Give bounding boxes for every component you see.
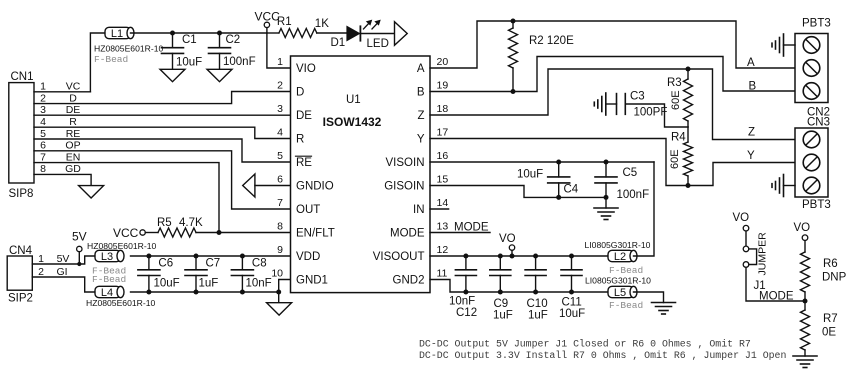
svg-text:F-Bead: F-Bead: [609, 300, 643, 311]
svg-text:SIP2: SIP2: [8, 293, 33, 305]
svg-text:0E: 0E: [822, 327, 836, 339]
C1 value 10uF: [176, 57, 202, 69]
5V terminal: [72, 230, 87, 265]
capacitor C10: [525, 256, 546, 292]
R7 label: [823, 313, 838, 325]
VO terminal at R6: [794, 222, 811, 252]
resistor R7 0E: [801, 301, 810, 356]
wire GND2 rail pin11: [430, 280, 608, 293]
junction C6 bottom: [146, 290, 151, 295]
CN1 label: [11, 71, 34, 83]
svg-text:PBT3: PBT3: [802, 199, 831, 211]
junction GND1/pin10: [276, 290, 281, 295]
C9 label: [494, 298, 509, 310]
U1 pin name EN/FLT (pin 8): [296, 228, 335, 240]
VO terminal at J1: [733, 212, 750, 246]
wire OP to U1 pin 7: [34, 151, 291, 209]
CN1 net label RE: [66, 128, 81, 140]
svg-text:LED: LED: [367, 38, 389, 50]
svg-text:VISOIN: VISOIN: [386, 157, 425, 169]
wire GND1 rail: [131, 291, 279, 293]
svg-text:MODE: MODE: [759, 291, 794, 303]
op-amp U1 ISOW1432 body: [291, 56, 431, 293]
svg-text:60E: 60E: [669, 149, 681, 169]
ground under C2: [207, 69, 232, 81]
svg-text:C9: C9: [494, 298, 509, 310]
VCC label top: [255, 10, 281, 24]
U1 pin name A (pin 20): [417, 63, 425, 75]
connector CN4 body: [7, 256, 32, 290]
svg-text:SIP8: SIP8: [9, 188, 34, 200]
C2 value 100nF: [223, 56, 256, 68]
svg-text:LI0805G301R-10: LI0805G301R-10: [585, 240, 651, 250]
U1 pin 17 number: [437, 126, 449, 138]
U1 pin 10 number: [271, 267, 283, 279]
wire B net pin19 to CN2: [430, 57, 795, 92]
CN4 pin 1 number: [38, 253, 44, 265]
svg-text:HZ0805E601R-10: HZ0805E601R-10: [86, 298, 155, 308]
resistor R2 120E: [509, 21, 518, 92]
LED D1: [347, 26, 395, 40]
svg-text:GND2: GND2: [393, 275, 425, 287]
U1 pin name GND1 (pin 10): [296, 275, 328, 287]
svg-text:6: 6: [40, 140, 46, 152]
svg-text:VCC: VCC: [113, 226, 139, 240]
junction C10 top: [533, 254, 538, 259]
svg-text:C1: C1: [182, 34, 197, 46]
CN1 net label VC: [66, 81, 81, 93]
svg-text:R3: R3: [667, 77, 682, 89]
capacitor C6: [138, 256, 160, 292]
C3 label: [630, 91, 645, 103]
U1 pin name DE (pin 3): [296, 110, 312, 122]
wire R to U1 pin 4: [34, 127, 291, 138]
svg-text:EN/FLT: EN/FLT: [296, 228, 335, 240]
junction C8 bottom: [240, 290, 245, 295]
C3 value 100PF: [634, 107, 668, 119]
svg-text:VISOOUT: VISOOUT: [373, 251, 425, 263]
U1 pin 2 number: [277, 79, 283, 91]
svg-text:7: 7: [40, 151, 46, 163]
svg-text:3: 3: [40, 104, 46, 116]
svg-text:10nF: 10nF: [246, 277, 272, 289]
svg-text:A: A: [417, 63, 425, 75]
VCC terminal at R5: [113, 226, 145, 240]
junction C4 bottom: [556, 195, 561, 200]
U1 pin 4 number: [277, 126, 283, 138]
CN1 net label OP: [65, 140, 80, 152]
capacitor C9: [490, 256, 511, 292]
svg-text:GND1: GND1: [296, 275, 328, 287]
CN1 net label DE: [66, 104, 81, 116]
svg-text:C2: C2: [226, 34, 241, 46]
D1 label: [331, 37, 346, 49]
U1 pin name R (pin 4): [296, 134, 304, 146]
wire GISOIN pin15: [430, 186, 606, 198]
svg-text:B: B: [749, 81, 757, 93]
junction C1/rail: [170, 31, 175, 36]
L4 F-Bead label: [92, 274, 126, 285]
net label MODE at J1: [759, 291, 794, 303]
svg-text:DNP: DNP: [822, 272, 847, 284]
svg-text:OUT: OUT: [296, 204, 320, 216]
wire Z net pin18 to CN3: [430, 69, 795, 140]
CN4 label: [9, 245, 33, 257]
svg-text:5V: 5V: [57, 253, 70, 265]
svg-text:10uF: 10uF: [559, 308, 585, 320]
U1 pin 9 number: [277, 244, 283, 256]
svg-text:1: 1: [40, 81, 46, 93]
wire L1 to VCC node: [131, 32, 267, 34]
svg-text:100PF: 100PF: [634, 107, 668, 119]
C12 value 10nF: [449, 295, 475, 307]
net label MODE pin13: [454, 222, 489, 234]
svg-text:1uF: 1uF: [528, 309, 548, 321]
U1 pin 1 number: [277, 56, 283, 68]
svg-text:10uF: 10uF: [154, 277, 180, 289]
wire VC row: [34, 91, 90, 93]
U1 pin name OUT (pin 7): [296, 204, 320, 216]
junction C8 top: [240, 254, 245, 259]
U1 pin name GND2 (pin 11): [393, 275, 425, 287]
capacitor C3 100PF: [594, 93, 688, 127]
svg-text:RE: RE: [66, 128, 81, 140]
R6 label: [823, 258, 838, 270]
wire GI to L4: [32, 277, 95, 292]
U1 pin 14 number: [437, 197, 449, 209]
svg-text:C12: C12: [456, 307, 477, 319]
VCC terminal circle: [264, 22, 269, 33]
wire VDD rail: [131, 255, 291, 257]
svg-text:1: 1: [277, 56, 283, 68]
svg-text:D: D: [69, 92, 77, 104]
C6 label: [158, 257, 173, 269]
U1 pin 15 number: [437, 173, 449, 185]
junction C6 top: [146, 254, 151, 259]
svg-text:CN3: CN3: [807, 117, 830, 129]
L3 F-Bead label: [92, 265, 126, 276]
svg-text:7: 7: [277, 197, 283, 209]
junction C5 bottom: [604, 195, 609, 200]
capacitor C5: [595, 162, 617, 197]
svg-text:GNDIO: GNDIO: [296, 181, 334, 193]
svg-text:18: 18: [437, 103, 449, 115]
svg-text:2: 2: [38, 266, 44, 278]
svg-text:D: D: [296, 87, 304, 99]
U1 pin 19 number: [437, 79, 449, 91]
wire VCC rail from CN1 pin1 to L1: [90, 33, 105, 92]
resistor R6 DNP: [801, 252, 810, 301]
C7 label: [206, 257, 221, 269]
C4 label: [564, 184, 579, 196]
svg-text:2: 2: [277, 79, 283, 91]
wire L2 out to VISOIN: [634, 162, 655, 256]
junction R2 top: [511, 19, 516, 24]
svg-text:VO: VO: [794, 222, 811, 234]
ground under C1: [160, 69, 185, 81]
junction MODE/R6/R7: [803, 299, 808, 304]
svg-text:GI: GI: [56, 266, 67, 278]
CN1 pin 8 number: [40, 163, 46, 175]
resistor R4 60E: [684, 127, 693, 186]
U1 reference label: [346, 94, 361, 106]
CN1 pin 3 number: [40, 104, 46, 116]
svg-text:PBT3: PBT3: [802, 18, 831, 30]
wire VISOIN pin16: [430, 161, 654, 163]
CN4 pin 2 number: [38, 266, 44, 278]
ground after L5: [652, 303, 676, 315]
resistor R3 60E: [684, 69, 693, 127]
R7 value 0E: [822, 327, 836, 339]
SIP8 label: [9, 188, 34, 200]
CN1 net label R: [69, 116, 77, 128]
VO terminal at rail: [499, 233, 516, 256]
CN1 pin 7 number: [40, 151, 46, 163]
junction 5V stem: [77, 262, 81, 266]
svg-text:HZ0805E601R-10: HZ0805E601R-10: [87, 241, 156, 251]
svg-text:20: 20: [437, 56, 449, 68]
ferrite bead L4: [95, 286, 124, 299]
U1 pin 11 number: [437, 267, 448, 279]
U1 pin 5 number: [277, 150, 283, 162]
jumper J1: [743, 246, 756, 267]
svg-text:11: 11: [437, 267, 448, 279]
svg-text:15: 15: [437, 173, 449, 185]
junction C11 top: [569, 254, 574, 259]
wire A net pin20 to CN2: [430, 21, 795, 68]
junction C4 top: [556, 160, 561, 165]
svg-text:5: 5: [277, 150, 283, 162]
svg-text:ISOW1432: ISOW1432: [323, 115, 382, 129]
J1 label: [754, 280, 766, 292]
U1 pin 20 number: [437, 56, 449, 68]
junction C9 top: [498, 254, 503, 259]
svg-text:B: B: [417, 87, 425, 99]
junction C7 bottom: [194, 290, 199, 295]
wire RE to U1 pin 5: [34, 139, 291, 162]
L2 part number: [585, 240, 651, 250]
junction C2/rail: [217, 31, 222, 36]
svg-text:13: 13: [437, 220, 449, 232]
L3 part number: [87, 241, 156, 251]
U1 pin name VISOOUT (pin 12): [373, 251, 425, 263]
svg-text:60E: 60E: [670, 90, 682, 110]
C9 value 1uF: [493, 309, 513, 321]
svg-text:DC-DC Output 3.3V Install R7 0: DC-DC Output 3.3V Install R7 0 Ohms , Om…: [419, 350, 786, 361]
L1 F-Bead label: [94, 54, 128, 65]
resistor R5 4.7K: [145, 228, 290, 237]
L5 F-Bead label: [609, 300, 643, 311]
CN4 net label GI: [56, 266, 67, 278]
R5 label: [157, 217, 172, 229]
svg-text:CN4: CN4: [9, 245, 33, 257]
svg-text:DE: DE: [66, 104, 81, 116]
C7 value 1uF: [199, 277, 219, 289]
junction VO stem: [510, 254, 515, 259]
svg-text:F-Bead: F-Bead: [92, 274, 126, 285]
ground GD triangle: [79, 186, 104, 198]
R2 label: [529, 35, 574, 47]
C1 label: [182, 34, 197, 46]
CN1 net label EN: [66, 151, 81, 163]
svg-text:CN1: CN1: [11, 71, 34, 83]
wire D to U1 pin 2: [34, 92, 291, 104]
capacitor C12: [455, 256, 476, 292]
svg-text:Z: Z: [417, 110, 424, 122]
C6 value 10uF: [154, 277, 180, 289]
svg-text:R6: R6: [823, 258, 838, 270]
C4 value 10uF: [517, 169, 543, 181]
capacitor C4: [548, 162, 570, 197]
ground at CN2 pin1: [772, 34, 795, 56]
U1 pin 18 number: [437, 103, 449, 115]
U1 pin name VDD (pin 9): [296, 251, 320, 263]
svg-text:C4: C4: [564, 184, 579, 196]
svg-text:C8: C8: [252, 257, 267, 269]
U1 pin name IN (pin 14): [413, 204, 425, 216]
L4 part number: [86, 298, 155, 308]
CN1 pin 2 number: [40, 92, 46, 104]
junction C12 top: [463, 254, 468, 259]
label Y: [747, 150, 755, 162]
svg-text:C6: C6: [158, 257, 173, 269]
note line 2: [419, 350, 786, 361]
ferrite bead L3: [95, 250, 124, 263]
svg-text:DE: DE: [296, 110, 312, 122]
ground under C5: [594, 197, 618, 219]
JUMPER label rotated: [757, 232, 769, 276]
C5 value 100nF: [617, 189, 650, 201]
L5 part number: [585, 275, 651, 285]
U1 pin 3 number: [277, 103, 283, 115]
junction C11 bottom: [569, 290, 574, 295]
R3 value 60E rotated: [670, 90, 682, 110]
C11 label: [562, 296, 582, 308]
capacitor C1: [162, 33, 184, 69]
svg-text:MODE: MODE: [390, 228, 425, 240]
C12 label: [456, 307, 477, 319]
svg-text:5V: 5V: [72, 230, 87, 244]
wire VISOOUT rail pin12: [430, 255, 608, 257]
C10 label: [527, 298, 548, 310]
svg-text:C7: C7: [206, 257, 221, 269]
connector CN3 body: [795, 128, 828, 197]
ground at CN3 pin3: [772, 175, 795, 197]
svg-text:R: R: [69, 116, 77, 128]
PBT3 label bottom: [802, 199, 831, 211]
U1 pin 7 number: [277, 197, 283, 209]
svg-text:4: 4: [277, 126, 283, 138]
U1 pin 13 number: [437, 220, 449, 232]
svg-text:VO: VO: [499, 233, 516, 245]
U1 pin name B (pin 19): [417, 87, 425, 99]
wire MODE pin13: [430, 232, 490, 234]
U1 pin 8 number: [277, 220, 283, 232]
PBT3 label top: [802, 18, 831, 30]
SIP2 label: [8, 293, 33, 305]
svg-text:10uF: 10uF: [517, 169, 543, 181]
ground GND1: [267, 292, 292, 315]
wire J1 to MODE node: [746, 267, 805, 301]
svg-text:16: 16: [437, 150, 449, 162]
svg-text:10: 10: [271, 267, 283, 279]
R5 value 4.7K: [179, 217, 203, 229]
CN1 pin 4 number: [40, 116, 46, 128]
svg-text:L1: L1: [111, 28, 123, 40]
svg-text:C10: C10: [527, 298, 548, 310]
svg-text:12: 12: [437, 244, 449, 256]
svg-text:OP: OP: [65, 140, 80, 152]
svg-text:R4: R4: [671, 132, 686, 144]
svg-text:17: 17: [437, 126, 449, 138]
svg-text:100nF: 100nF: [223, 56, 256, 68]
R1 value 1K: [315, 18, 329, 30]
svg-text:L5: L5: [614, 287, 626, 299]
U1 pin 6 number: [277, 173, 283, 185]
svg-text:MODE: MODE: [454, 222, 489, 234]
wire GD to ground: [34, 174, 91, 185]
L2 F-Bead label: [609, 265, 643, 276]
svg-text:C3: C3: [630, 91, 645, 103]
R6 value DNP: [822, 272, 847, 284]
U1 pin name MODE (pin 13): [390, 228, 425, 240]
C11 value 10uF: [559, 308, 585, 320]
svg-text:19: 19: [437, 79, 449, 91]
svg-text:GISOIN: GISOIN: [384, 181, 424, 193]
wire Y net pin17 to CN3: [430, 139, 795, 186]
svg-text:8: 8: [40, 163, 46, 175]
wire VCC to VIO pin 1: [267, 33, 291, 68]
wire 5V to L3: [32, 256, 95, 264]
wire EN to U1 pin 8 via R5 node: [34, 163, 219, 233]
LED arrows: [364, 20, 381, 29]
svg-text:R1: R1: [277, 16, 292, 28]
CN1 pin 6 number: [40, 140, 46, 152]
capacitor C7: [185, 256, 207, 292]
svg-text:4: 4: [40, 116, 46, 128]
svg-text:6: 6: [277, 173, 283, 185]
svg-text:1K: 1K: [315, 18, 329, 30]
svg-text:14: 14: [437, 197, 449, 209]
svg-text:F-Bead: F-Bead: [609, 265, 643, 276]
svg-text:100nF: 100nF: [617, 189, 650, 201]
svg-text:VDD: VDD: [296, 251, 320, 263]
C8 label: [252, 257, 267, 269]
svg-text:JUMPER: JUMPER: [757, 232, 769, 276]
svg-text:C5: C5: [623, 167, 638, 179]
connector CN2 body: [795, 34, 828, 103]
svg-text:R: R: [296, 134, 304, 146]
svg-text:C11: C11: [562, 296, 582, 308]
U1 pin name GISOIN (pin 15): [384, 181, 424, 193]
R3 label: [667, 77, 682, 89]
junction EN/R5: [217, 230, 222, 235]
svg-text:R7: R7: [823, 313, 838, 325]
svg-text:RE: RE: [296, 157, 312, 169]
CN3 label: [807, 117, 830, 129]
wire L5 out to ground: [634, 292, 664, 303]
junction C10 bottom: [533, 290, 538, 295]
U1 pin name GNDIO (pin 6): [296, 181, 334, 193]
label A: [747, 57, 755, 69]
svg-text:U1: U1: [346, 94, 361, 106]
CN4 net label 5V: [57, 253, 70, 265]
ferrite bead L5: [608, 286, 637, 299]
C5 label: [623, 167, 638, 179]
CN1 pin 1 number: [40, 81, 46, 93]
C2 label: [226, 34, 241, 46]
svg-text:F-Bead: F-Bead: [94, 54, 128, 65]
